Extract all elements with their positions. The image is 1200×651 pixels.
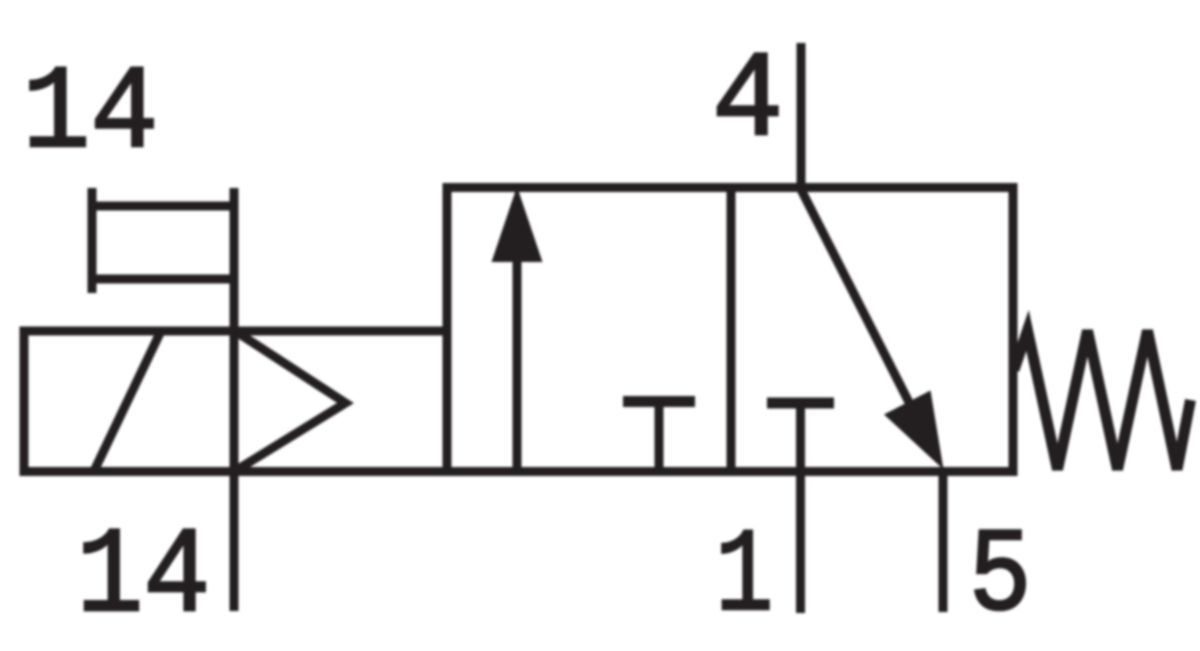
svg-text:14: 14 bbox=[76, 510, 210, 647]
svg-text:14: 14 bbox=[22, 47, 158, 182]
svg-text:5: 5 bbox=[969, 510, 1032, 645]
svg-text:4: 4 bbox=[712, 34, 783, 172]
svg-text:1: 1 bbox=[715, 510, 773, 645]
